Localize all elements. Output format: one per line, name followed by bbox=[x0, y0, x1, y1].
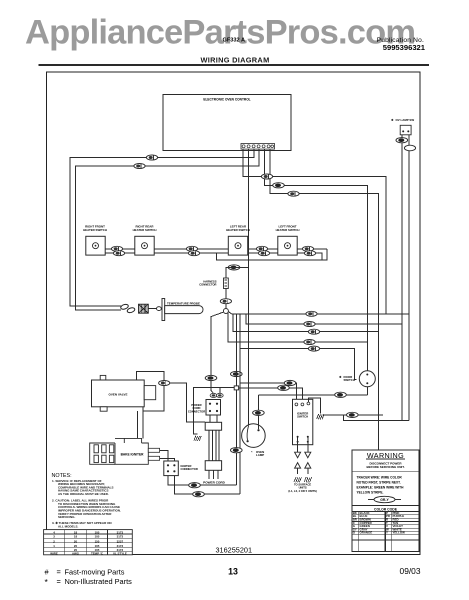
svg-text:HEATER SWITCH: HEATER SWITCH bbox=[83, 228, 107, 232]
wire pin6 right run bbox=[270, 149, 379, 450]
svg-text:BAKE IGNITER: BAKE IGNITER bbox=[121, 453, 145, 457]
arrow down right bbox=[305, 452, 311, 458]
svg-text:WARNING: WARNING bbox=[367, 451, 404, 460]
ground igniter sw bbox=[317, 414, 324, 420]
svg-text:=: = bbox=[57, 568, 61, 577]
heater switch S3 left rear bbox=[226, 225, 250, 256]
wire switch bus lower bbox=[105, 253, 322, 260]
grommet on lamp-sw right wire bbox=[404, 145, 415, 151]
connector on pcc feed bbox=[205, 375, 217, 380]
strand right bbox=[304, 477, 311, 483]
connector y485 bbox=[189, 483, 201, 488]
connector pair after S4 bbox=[302, 246, 313, 251]
connector on pin6 wire bbox=[288, 191, 299, 196]
svg-text:3257: 3257 bbox=[117, 539, 124, 543]
svg-text:CONNECTOR: CONNECTOR bbox=[181, 467, 198, 471]
label to surface units bbox=[288, 483, 316, 493]
wire stub left bbox=[297, 468, 299, 474]
svg-text:YELLOW: YELLOW bbox=[393, 531, 406, 535]
svg-text:20: 20 bbox=[74, 539, 78, 543]
arrow up left bbox=[295, 463, 301, 469]
svg-text:150: 150 bbox=[95, 539, 100, 543]
svg-text:SWITCH: SWITCH bbox=[297, 415, 308, 419]
connector on probe wire A bbox=[146, 155, 157, 160]
svg-text:ELECTRONIC OVEN CONTROL: ELECTRONIC OVEN CONTROL bbox=[203, 98, 250, 102]
svg-text:(L1, L2, 4 OR 5 UNITS): (L1, L2, 4 OR 5 UNITS) bbox=[288, 489, 316, 493]
footer fast-moving bbox=[45, 568, 125, 577]
wire gauge table bbox=[44, 530, 133, 556]
connector pair S2-S3 bbox=[186, 246, 197, 251]
svg-text:13: 13 bbox=[228, 567, 238, 577]
wire fan4 bbox=[228, 313, 368, 342]
connector igniter row bbox=[347, 412, 359, 417]
strand left bbox=[294, 477, 301, 483]
connector igniter feed 2 bbox=[278, 385, 290, 390]
wire fan2 bbox=[246, 314, 402, 324]
connector y494 bbox=[193, 492, 205, 497]
svg-text:SERVICING.: SERVICING. bbox=[58, 515, 75, 519]
svg-text:HEATER SWITCH: HEATER SWITCH bbox=[133, 228, 157, 232]
oven lamp switch S5 bbox=[391, 118, 414, 135]
connector on pin5 wire bbox=[273, 183, 285, 188]
wire valve loop bbox=[137, 372, 165, 412]
power cord W1 bbox=[203, 415, 225, 485]
power cord connector X2 bbox=[188, 393, 223, 415]
wire valve to igniter a bbox=[137, 411, 139, 438]
wire igniter sw out right bbox=[307, 438, 309, 452]
svg-text:HEATER SWITCH: HEATER SWITCH bbox=[226, 228, 250, 232]
svg-text:5995396321: 5995396321 bbox=[383, 43, 426, 52]
connector fan4 bbox=[304, 340, 315, 345]
igniter switch S6 bbox=[293, 399, 313, 444]
svg-text:SWITCH: SWITCH bbox=[344, 378, 355, 382]
connector fan2 bbox=[304, 322, 315, 327]
wire lamp-sw left drop bbox=[401, 135, 403, 421]
connector fan5 bbox=[308, 346, 319, 351]
connector igniter feed 1 bbox=[284, 380, 296, 385]
wire return run y266 to harness bbox=[226, 267, 249, 278]
footer non-illustrated bbox=[45, 577, 133, 587]
connector pair S3-S4 bbox=[256, 246, 267, 251]
svg-text:TEMP °C: TEMP °C bbox=[91, 551, 104, 555]
wire pin4 left run to probe bbox=[76, 149, 260, 310]
connector y374 bbox=[231, 371, 243, 376]
svg-text:3173: 3173 bbox=[117, 535, 124, 539]
wire igniter switch feed 1 bbox=[240, 383, 296, 403]
wire right bottom link bbox=[344, 415, 409, 420]
wire valve to igniter b bbox=[142, 411, 144, 438]
warning box bbox=[352, 450, 419, 552]
svg-text:CONNECTOR: CONNECTOR bbox=[199, 283, 216, 287]
wire door sw top bbox=[366, 342, 368, 371]
bake igniter E1 bbox=[90, 438, 160, 464]
wire igniter sw top right to ground bbox=[308, 398, 320, 413]
wire igniter row horizontal bbox=[323, 414, 383, 416]
svg-text:=: = bbox=[57, 577, 61, 586]
wire return run y260 bbox=[216, 249, 327, 260]
svg-text:Y: Y bbox=[386, 531, 388, 535]
heater switch S1 right front bbox=[83, 225, 107, 256]
wire fan3 bbox=[233, 314, 379, 332]
wire igniter conn bottom b bbox=[175, 476, 241, 495]
diagram frame bbox=[47, 72, 421, 555]
svg-text:316255201: 316255201 bbox=[216, 546, 253, 555]
svg-text:WIRE: WIRE bbox=[50, 551, 58, 555]
wire pin2 long vertical bbox=[248, 149, 250, 425]
svg-text:18: 18 bbox=[74, 535, 78, 539]
svg-text:EXAMPLE: GREEN WIRE WITH: EXAMPLE: GREEN WIRE WITH bbox=[357, 486, 405, 490]
wire igniter tab b bbox=[160, 458, 175, 461]
arrow down left bbox=[295, 452, 301, 458]
svg-text:WIRING DIAGRAM: WIRING DIAGRAM bbox=[200, 56, 269, 65]
svg-text:TEMPERATURE PROBE: TEMPERATURE PROBE bbox=[167, 301, 200, 305]
svg-text:YELLOW STRIPE.: YELLOW STRIPE. bbox=[357, 491, 384, 495]
wire valve out bbox=[170, 383, 206, 422]
wire pcc right feed bbox=[220, 387, 234, 393]
svg-text:105: 105 bbox=[95, 535, 100, 539]
wire stub right bbox=[307, 468, 309, 474]
EOC pin strip bbox=[241, 144, 275, 150]
connector lamp-door run bbox=[335, 392, 347, 397]
wire harness to junction bbox=[225, 289, 227, 309]
connector valve loop bbox=[159, 381, 170, 386]
wire igniter switch feed 2 bbox=[239, 388, 303, 403]
svg-text:GF332 A: GF332 A bbox=[223, 38, 246, 44]
svg-text:ORANGE: ORANGE bbox=[360, 531, 373, 535]
connector fan1 bbox=[306, 311, 317, 316]
notes block bbox=[52, 473, 122, 528]
connector fan3 bbox=[308, 329, 319, 334]
svg-text:09/03: 09/03 bbox=[400, 566, 421, 576]
ground power cord bbox=[194, 436, 201, 442]
connector on y260 run bbox=[228, 265, 240, 270]
svg-text:HEATER SWITCH: HEATER SWITCH bbox=[276, 228, 300, 232]
door switch S7 bbox=[339, 371, 375, 387]
wire pin1 right run bbox=[243, 149, 386, 314]
svg-text:AWG: AWG bbox=[72, 551, 80, 555]
wire x236 below square bbox=[235, 390, 237, 485]
wire lamp riser bbox=[257, 395, 259, 429]
wire door sw bottom bbox=[366, 387, 368, 395]
oven lamp DS1 bbox=[242, 424, 266, 457]
svg-text:UL STYLE: UL STYLE bbox=[113, 551, 127, 555]
junction node J1 bbox=[223, 309, 228, 314]
svg-text:✱: ✱ bbox=[339, 375, 342, 379]
heater switch S4 left front bbox=[276, 225, 300, 256]
svg-text:ALL MODELS.: ALL MODELS. bbox=[58, 524, 78, 528]
connector lamp riser bbox=[253, 410, 265, 415]
connector pair S1-S2 bbox=[111, 246, 122, 251]
svg-text:NOTED FIRST, STRIPE NEXT.: NOTED FIRST, STRIPE NEXT. bbox=[357, 481, 401, 485]
svg-text:AppliancePartsPros.com: AppliancePartsPros.com bbox=[25, 14, 416, 52]
wire x236 drop bbox=[235, 314, 237, 386]
connector on probe wire B bbox=[134, 164, 145, 169]
heater switch S2 right rear bbox=[133, 225, 157, 256]
wire junction to power cord bbox=[211, 312, 224, 393]
svg-text:POWER CORD: POWER CORD bbox=[203, 481, 225, 485]
wire fan junction to x385 bbox=[228, 312, 409, 314]
wire ground run bbox=[194, 387, 235, 434]
svg-text:CONNECTOR: CONNECTOR bbox=[188, 409, 205, 413]
wire pin5 right run bbox=[265, 149, 368, 342]
oven valve V1 bbox=[92, 375, 156, 411]
wire pin3 left run to probe bbox=[70, 149, 254, 306]
harness connector F1 bbox=[199, 278, 228, 289]
svg-text:LAMP: LAMP bbox=[256, 453, 264, 457]
wire lamp to door sw run bbox=[258, 394, 367, 396]
wire switch bus upper bbox=[105, 248, 327, 250]
svg-text:Fast-moving Parts: Fast-moving Parts bbox=[65, 568, 125, 577]
temperature probe P1 bbox=[120, 299, 203, 321]
junction square N1 bbox=[234, 386, 238, 390]
top rule bbox=[39, 64, 430, 66]
wire igniter tab a bbox=[160, 450, 168, 461]
electronic oven control U1 bbox=[163, 95, 291, 151]
svg-text:BEFORE SERVICING UNIT.: BEFORE SERVICING UNIT. bbox=[366, 465, 404, 469]
igniter connector X1 bbox=[164, 461, 198, 476]
arrow up right bbox=[305, 463, 311, 469]
svg-text:TRACER WIRE: WIRE COLOR: TRACER WIRE: WIRE COLOR bbox=[357, 476, 403, 480]
color code table bbox=[352, 505, 419, 551]
wire fan5 bbox=[240, 349, 356, 380]
wire x244 drop bbox=[239, 314, 241, 494]
connector below harness bbox=[220, 299, 231, 304]
svg-text:AS THE ORIGINAL MUST BE USED.: AS THE ORIGINAL MUST BE USED. bbox=[58, 492, 109, 496]
connector on pin1 wire bbox=[261, 174, 272, 179]
wires: EOC pins drop bbox=[70, 149, 386, 450]
connector x236 bbox=[231, 448, 243, 453]
wire lamp-sw right drop bbox=[408, 135, 410, 421]
connector on lamp-sw left wire bbox=[396, 138, 408, 143]
svg-text:GR-Y: GR-Y bbox=[380, 498, 389, 502]
wire igniter sw out left bbox=[297, 438, 299, 452]
wire igniter conn bottom a bbox=[168, 476, 236, 486]
svg-text:OV LAMP SW: OV LAMP SW bbox=[396, 118, 415, 122]
svg-text:Non-Illustrated Parts: Non-Illustrated Parts bbox=[65, 577, 133, 586]
svg-text:OVEN VALVE: OVEN VALVE bbox=[109, 392, 128, 396]
